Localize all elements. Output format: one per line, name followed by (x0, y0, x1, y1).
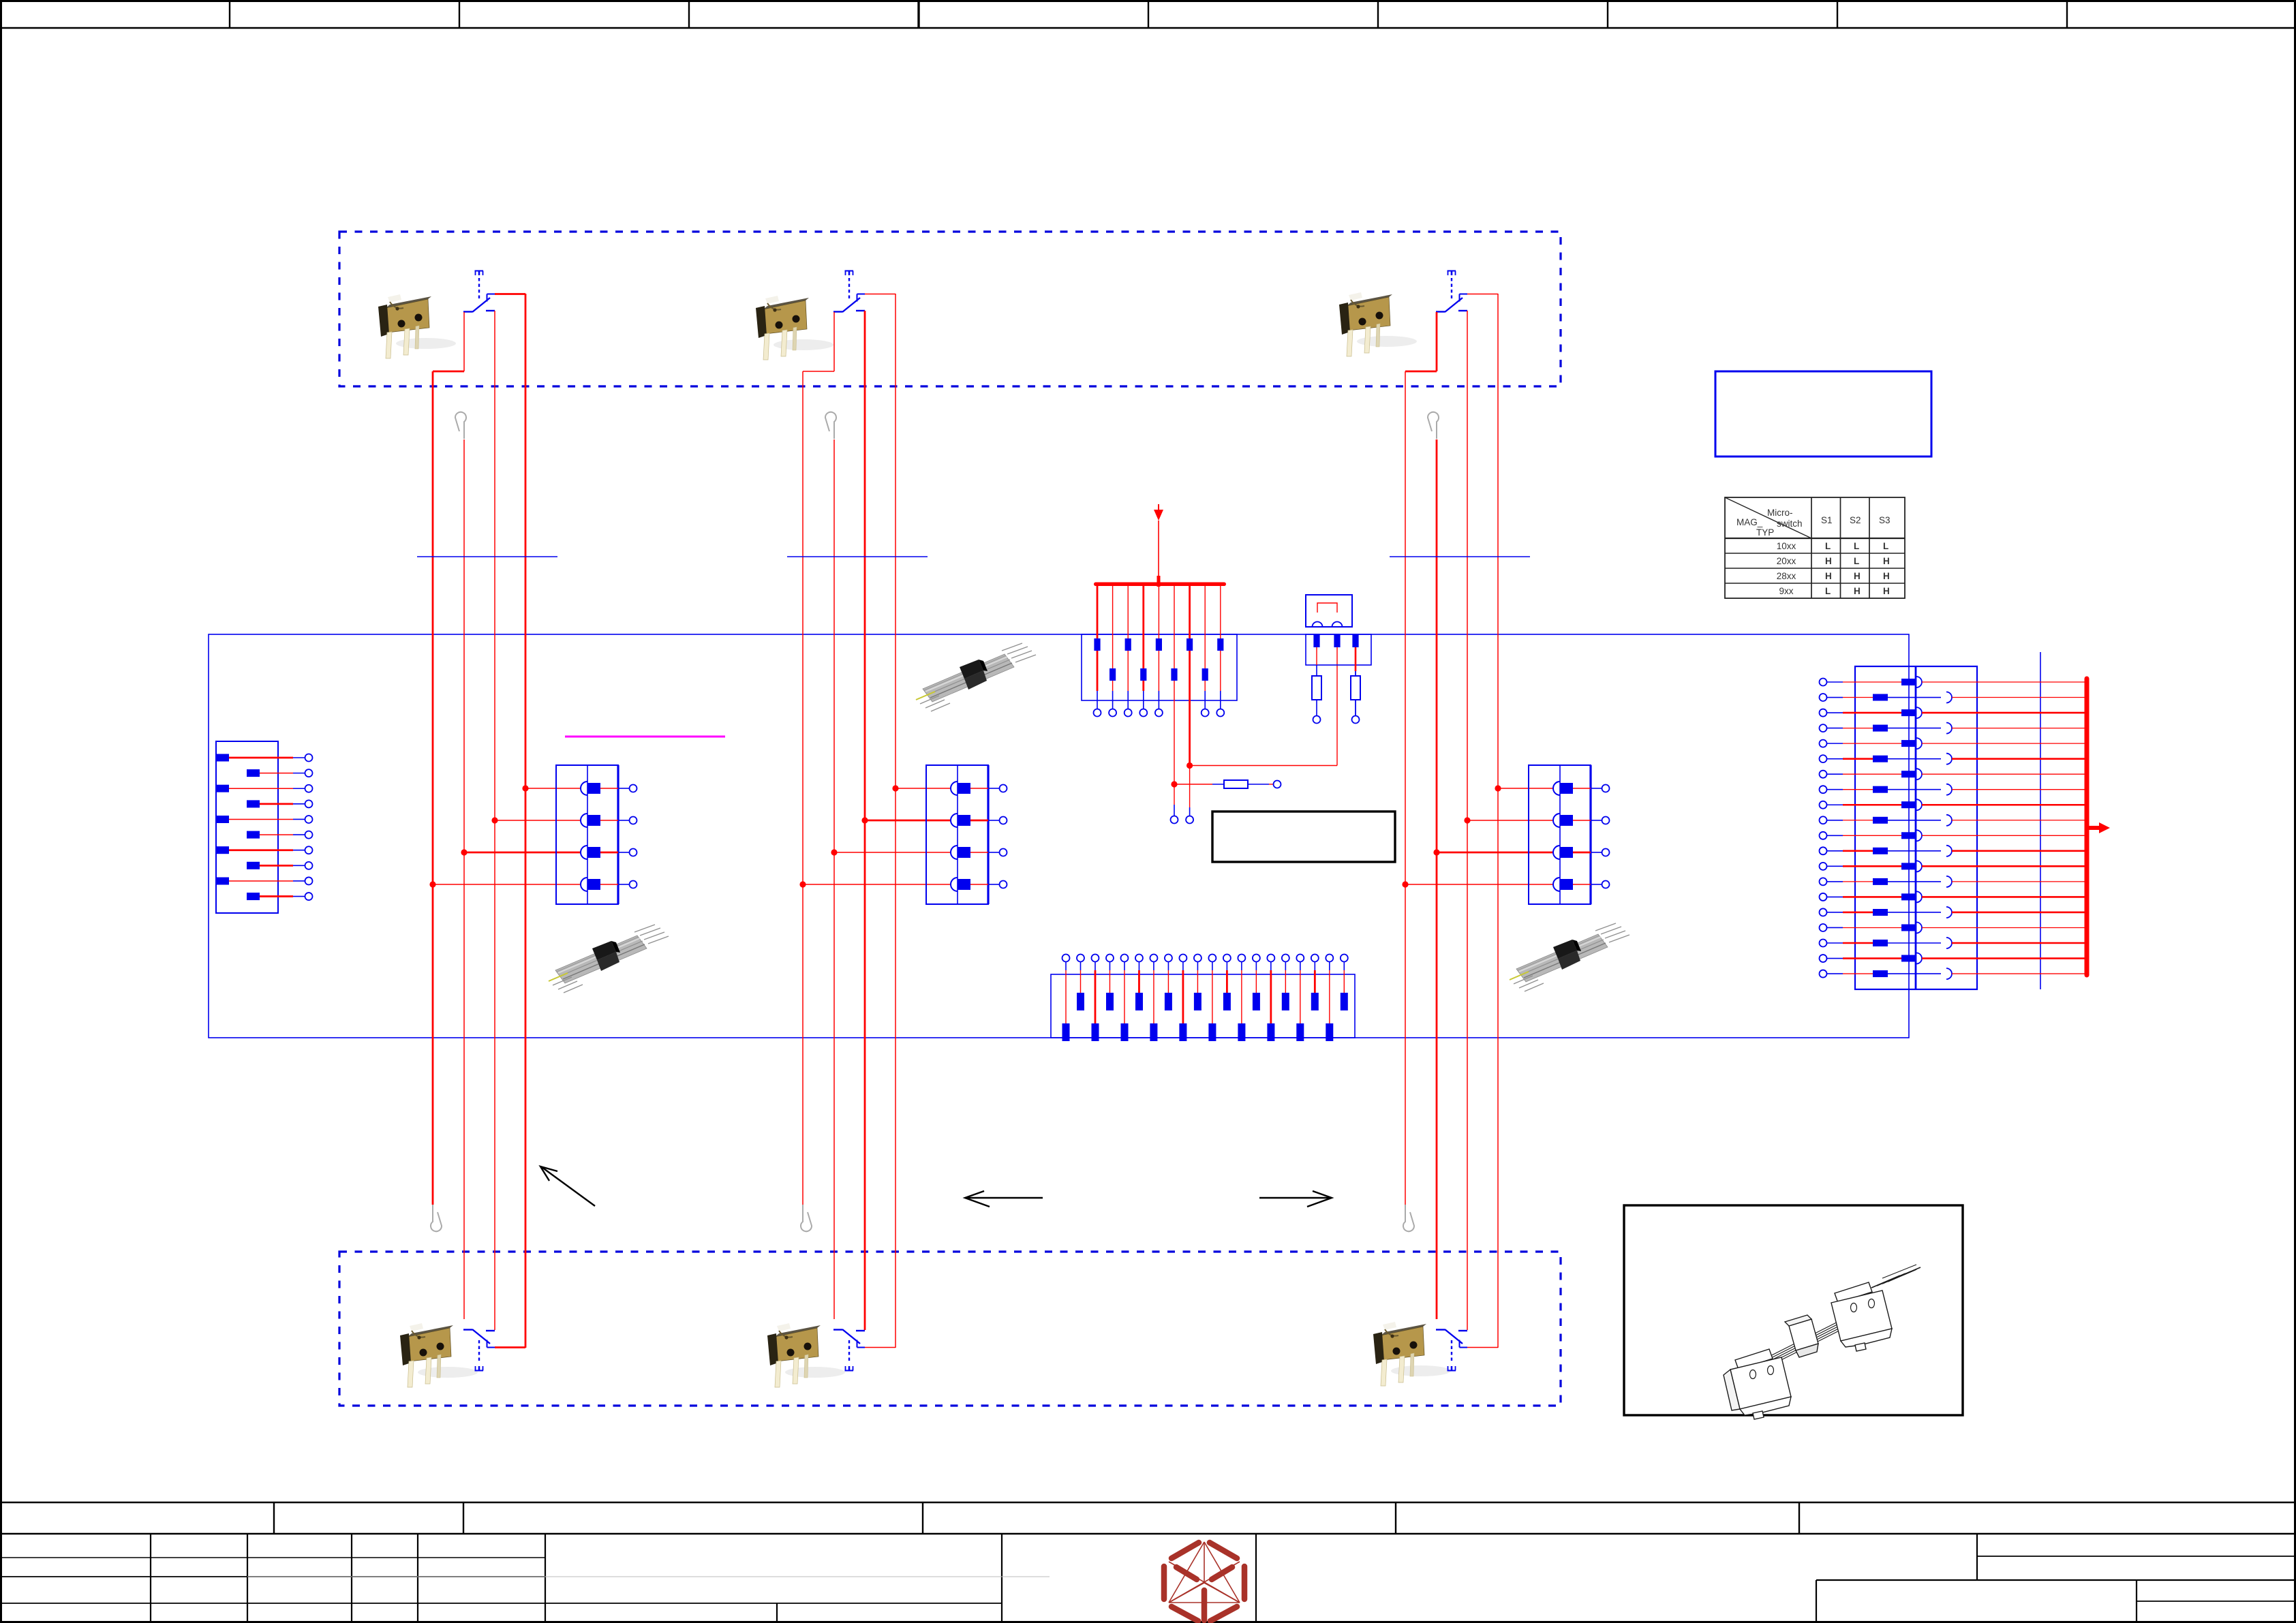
svg-text:Micro-: Micro- (1767, 508, 1793, 518)
connector X1 pin 7 (216, 846, 229, 854)
microswitch S1 photo (bottom) (400, 1323, 478, 1387)
title block vertical 3 (351, 1534, 352, 1622)
title block vertical 8 (776, 1603, 778, 1622)
connector X6 terminal 18 (1311, 955, 1319, 962)
splice pin on wire A (S3) (1403, 1205, 1414, 1231)
svg-text:20xx: 20xx (1777, 556, 1796, 566)
comb wire 5 upper (1158, 585, 1159, 638)
junction node S1 row1 (522, 785, 528, 791)
junction node S3 row1 (1495, 785, 1501, 791)
microswitch S2 photo (bottom) (767, 1323, 845, 1387)
lamp circuit row 7 (1820, 771, 1827, 778)
wire S1 vertical A (432, 371, 434, 1205)
fuse F1.6 (1171, 668, 1177, 681)
wire S3 row4 feeder (1405, 884, 1553, 885)
title block vertical 10 (1976, 1534, 1978, 1580)
comb wire 5 lower (1158, 651, 1159, 691)
wire S3 bottom blade-common to D (1467, 1347, 1498, 1348)
title block vertical 9 (1816, 1580, 1817, 1622)
comb wire 1 lower (1097, 651, 1099, 691)
note box (blue) (1715, 371, 1931, 457)
connector X3 pin 2 (951, 814, 958, 827)
title block hline b (0, 1576, 545, 1577)
title block hline e (1816, 1579, 2296, 1581)
connector X3 pin 1 (951, 782, 958, 795)
frame top tick 7 (1607, 0, 1608, 28)
microswitch S3 photo (top) (1339, 292, 1417, 356)
connector X6 terminal 14 (1253, 955, 1260, 962)
connector X6 pin 4 (1106, 993, 1114, 1010)
wire S1 top contact drop (463, 312, 465, 371)
svg-text:H: H (1883, 571, 1890, 581)
reed contact K1 body (1306, 595, 1352, 627)
lamp circuit row 16 (1820, 908, 1827, 916)
connector X3 body (926, 765, 988, 904)
connector X1 pin 2 (247, 769, 260, 777)
connector X2 pin 2 (581, 814, 587, 827)
junction node S2 row3 (831, 849, 837, 855)
fuse F1.8 (1202, 668, 1208, 681)
lamp circuit row 14 (1820, 878, 1827, 885)
connector X6 pin 11 (1208, 1023, 1216, 1041)
comb wire 1 upper (1097, 585, 1099, 638)
splice pin on wire B (S2) (825, 412, 836, 439)
connector X7 divider (1915, 666, 1917, 989)
svg-text:TYP: TYP (1756, 527, 1774, 538)
connector X6 terminal 9 (1179, 955, 1187, 962)
svg-text:S3: S3 (1879, 515, 1891, 525)
wire S2 bottom blade-common to D (865, 1347, 896, 1348)
connector X6 pin 12 (1223, 993, 1231, 1010)
fuse F1.4 (1140, 668, 1146, 681)
wire X1 row1 stub (293, 757, 305, 758)
ribbon cable photo 2 (549, 925, 669, 993)
wire S2 top blade-common to D (865, 294, 896, 295)
comb wire 8 upper (1204, 585, 1206, 668)
svg-text:S1: S1 (1821, 515, 1833, 525)
connector X6 terminal 4 (1106, 955, 1114, 962)
connector X1 pin 6 (247, 831, 260, 839)
junction node S2 row4 (799, 881, 806, 887)
connector X1 pin 8 (247, 862, 260, 869)
svg-text:H: H (1854, 586, 1861, 596)
wire X1 row5 stub (293, 818, 305, 820)
wire comb7 to relay K1 (1190, 765, 1337, 767)
wire S3 top blade-common to D (1467, 294, 1498, 295)
connector X4 pin 2 (1553, 814, 1560, 827)
splice pin on wire B (S1) (455, 412, 466, 439)
wire S3 top jog (1405, 371, 1437, 373)
connector X6 pin 3 (1092, 1023, 1099, 1041)
title block vertical 2 (247, 1534, 248, 1622)
wire S2 row3 feeder (834, 852, 951, 853)
connector X4 pin 1 (1553, 782, 1560, 795)
wire S3 vertical A (1405, 371, 1406, 1205)
frame top tick 5 (1148, 0, 1149, 28)
connector X7 body (1855, 666, 1977, 989)
connector X6 pin 15 (1267, 1023, 1274, 1041)
fuse block F1 body (1082, 634, 1237, 700)
comb wire 6 tail (1174, 784, 1175, 805)
resistor R2 (1351, 676, 1360, 700)
connector X4 pin 3 (1553, 846, 1560, 859)
reed contact K1 pad 2 (1332, 622, 1343, 627)
frame top tick 9 (2066, 0, 2068, 28)
comb wire 9 upper (1220, 585, 1221, 638)
title block top line (0, 1533, 2296, 1535)
connector X6 terminal 10 (1194, 955, 1201, 962)
micro-switch S1 symbol (top) (463, 271, 495, 313)
comb wire 7 tail (1189, 766, 1191, 808)
lamp circuit row 18 (1820, 940, 1827, 947)
wire S2 row4 feeder (803, 884, 951, 885)
bottom magazine dashed box (339, 1252, 1561, 1406)
title strip divider 2 (463, 1502, 464, 1534)
frame top tick 3 (688, 0, 690, 28)
connector X6 terminal 12 (1223, 955, 1231, 962)
connector X6 terminal 7 (1150, 955, 1157, 962)
wire X1 row3 stub (293, 788, 305, 789)
connector X6 terminal 17 (1296, 955, 1304, 962)
wire S3 row3 feeder (1437, 852, 1553, 854)
connector X2 pin 3 (581, 846, 587, 859)
connector X1 pin 5 (216, 816, 229, 823)
connector X3 pin 3 (951, 846, 958, 859)
lamp circuit row 4 (1820, 724, 1827, 732)
option box (black) (1212, 811, 1395, 862)
wire S2 vertical C (864, 311, 866, 1330)
supply bus arrow (2087, 826, 2099, 830)
comb wire 3 lower (1127, 651, 1129, 691)
connector X6 terminal 13 (1238, 955, 1245, 962)
svg-text:10xx: 10xx (1777, 541, 1796, 551)
svg-text:L: L (1854, 541, 1859, 551)
junction node S1 row4 (429, 881, 435, 887)
connector X6 terminal 2 (1077, 955, 1084, 962)
marker line (magenta) (565, 736, 725, 738)
connector X6 terminal 5 (1120, 955, 1128, 962)
lamp circuit row 12 (1820, 847, 1827, 854)
wire S1 row3 feeder (464, 852, 581, 854)
connector X6 terminal 1 (1062, 955, 1070, 962)
connector X2 pin 4 (581, 878, 587, 891)
wire R2 to terminal (1355, 700, 1356, 715)
lamp circuit row 8 (1820, 786, 1827, 793)
frame top tick 8 (1837, 0, 1838, 28)
wire S1 top jog (433, 371, 464, 373)
lamp circuit row 5 (1820, 740, 1827, 747)
connector X6 pin 20 (1341, 993, 1348, 1010)
feed arrow (down) (1158, 504, 1159, 510)
microswitch S2 photo (top) (756, 296, 833, 360)
top magazine dashed box (339, 232, 1561, 386)
svg-text:H: H (1825, 571, 1832, 581)
junction node S2 row1 (892, 785, 898, 791)
frame top tick 4 (917, 0, 919, 28)
fuse F1.2 (1109, 668, 1116, 681)
connector X6 terminal 20 (1341, 955, 1348, 962)
comb wire 7 lower (1189, 651, 1191, 766)
connector X6 terminal 3 (1091, 955, 1099, 962)
lamp circuit row 19 (1820, 955, 1827, 962)
supply bus B1 (2085, 679, 2090, 975)
comb wire 4 lower (1142, 681, 1144, 691)
wire R3 to terminal (1248, 784, 1269, 785)
connector X2 body (556, 765, 618, 904)
wire X1 row10 stub (293, 896, 305, 897)
lamp circuit row 20 (1820, 970, 1827, 978)
fuse F1.9 (1217, 638, 1223, 651)
wire X1 row9 stub (293, 880, 305, 882)
wire S2 vertical D (895, 294, 896, 1348)
comb wire 2 lower (1112, 681, 1114, 691)
connector X6 terminal 16 (1282, 955, 1289, 962)
wire S3 vertical D (1497, 294, 1499, 1348)
wire X1 row4 stub (293, 803, 305, 805)
frame top tick 1 (229, 0, 230, 28)
connector X6 terminal 19 (1326, 955, 1333, 962)
wire S1 vertical D (525, 294, 527, 1348)
connector X6 pin 2 (1077, 993, 1084, 1010)
fuse F1.1 (1094, 638, 1100, 651)
connector X1 pin 9 (216, 878, 229, 885)
connector X2 pin 1 (581, 782, 587, 795)
connector X6 pin 19 (1326, 1023, 1333, 1041)
junction node S3 row2 (1464, 817, 1470, 823)
svg-text:H: H (1854, 571, 1861, 581)
junction node S1 row2 (491, 817, 498, 823)
connector X6 terminal 11 (1208, 955, 1216, 962)
title block vertical 4 (417, 1534, 418, 1622)
connector X1 pin 4 (247, 800, 260, 807)
connector X5 body (1306, 634, 1371, 665)
micro-switch S2 symbol (bottom) (833, 1329, 865, 1371)
net tag line S2 (787, 556, 928, 557)
wire S2 vertical B (833, 439, 835, 1319)
comb wire 7 upper (1189, 585, 1191, 638)
ribbon cable photo 3 (1510, 923, 1629, 991)
fuse F1.7 (1187, 638, 1193, 651)
wire X5.3 to R2 (1355, 647, 1357, 671)
connector X1 pin 10 (247, 893, 260, 900)
connector X6 pin 13 (1238, 1023, 1245, 1041)
lamp circuit row 10 (1820, 816, 1827, 824)
ribbon cable photo 1 (916, 643, 1036, 711)
wire relay K1 pin2 drop (1336, 647, 1338, 766)
lamp circuit row 13 (1820, 863, 1827, 870)
wire X1 row8 stub (293, 865, 305, 866)
wire S1 top blade-common to D (495, 293, 525, 295)
wire S1 bottom blade-common to D (495, 1346, 525, 1348)
lamp circuit row 17 (1820, 924, 1827, 931)
wire X5.1 to R1 (1316, 647, 1317, 665)
title block hline d (1977, 1556, 2296, 1557)
svg-text:H: H (1883, 556, 1890, 566)
connector X6 terminal 8 (1165, 955, 1172, 962)
svg-text:L: L (1883, 541, 1888, 551)
arrow left (965, 1191, 1043, 1207)
junction node comb7 (1187, 762, 1193, 769)
lamp circuit row 11 (1820, 832, 1827, 839)
net tag line S1 (417, 556, 557, 557)
connector X5 pin 3 (1352, 634, 1358, 647)
svg-text:H: H (1825, 556, 1832, 566)
wire X1 row6 stub (293, 834, 305, 835)
connector X6 pin 18 (1311, 993, 1319, 1010)
splice pin on wire A (S1) (431, 1205, 442, 1231)
arrow up-left (540, 1166, 595, 1206)
title block hline a (0, 1557, 545, 1558)
feed bus bar (1094, 583, 1226, 587)
wire S2 row1 feeder (896, 788, 951, 789)
lamp circuit row 2 (1820, 694, 1827, 701)
junction node S1 row3 (461, 849, 467, 855)
wire S1 row4 feeder (433, 884, 581, 885)
wire X1 row2 stub (293, 773, 305, 774)
title strip divider 3 (922, 1502, 923, 1534)
wire S3 vertical B (1436, 439, 1438, 1319)
microswitch S3 photo (bottom) (1373, 1322, 1451, 1386)
connector X6 pin 14 (1253, 993, 1260, 1010)
micro-switch S2 symbol (top) (833, 271, 865, 313)
svg-text:28xx: 28xx (1777, 571, 1796, 581)
connector X1 pin 1 (216, 754, 229, 762)
lamp circuit row 15 (1820, 893, 1827, 901)
coding table text (1736, 508, 1891, 596)
title block vertical 6 (1001, 1534, 1002, 1622)
connector X5 pin 1 (1313, 634, 1319, 647)
fuse F1.3 (1125, 638, 1131, 651)
title strip divider 4 (1395, 1502, 1396, 1534)
title block vertical 7 (1255, 1534, 1257, 1622)
wire X1 row7 stub (293, 850, 305, 851)
connector X6 terminal 15 (1267, 955, 1274, 962)
title block hline b2 (247, 1576, 1050, 1577)
frame top tick 6 (1377, 0, 1379, 28)
micro-switch S3 symbol (top) (1436, 271, 1467, 313)
wire S2 top contact drop (833, 312, 835, 371)
svg-text:S2: S2 (1850, 515, 1861, 525)
wire R1 to terminal (1316, 700, 1317, 715)
title block vertical 11 (2136, 1580, 2137, 1622)
splice pin on wire B (S3) (1428, 412, 1439, 439)
connector X3 pin 4 (951, 878, 958, 891)
connector X5 pin 2 (1334, 634, 1340, 647)
title strip divider 5 (1798, 1502, 1800, 1534)
lamp circuit row 1 (1820, 679, 1827, 686)
coding table (1725, 497, 1905, 598)
junction node S3 row4 (1402, 881, 1408, 887)
connector X6 pin 9 (1179, 1023, 1187, 1041)
comb wire 6 upper (1174, 585, 1175, 668)
title strip divider 1 (273, 1502, 275, 1534)
comb wire 2 upper (1112, 585, 1114, 668)
title block vertical 1 (150, 1534, 151, 1622)
company logo (hex wireframe) (1164, 1542, 1244, 1621)
title block hline f (2137, 1601, 2296, 1602)
connector X6 terminal 6 (1135, 955, 1143, 962)
arrow right (1259, 1191, 1332, 1207)
connector X6 pin 1 (1062, 1023, 1070, 1041)
junction node S3 row3 (1433, 849, 1439, 855)
title block hline c (0, 1603, 1002, 1604)
frame top tick 2 (459, 0, 460, 28)
resistor R1 (1312, 676, 1321, 700)
wire S2 row2 feeder (865, 820, 951, 822)
svg-text:L: L (1825, 541, 1831, 551)
junction node comb6 (1171, 781, 1177, 787)
wire S1 row2 feeder (495, 820, 581, 821)
connector X6 pin 16 (1282, 993, 1289, 1010)
wire S3 row1 feeder (1498, 788, 1553, 789)
reed contact K1 internal wire (1317, 603, 1337, 613)
wire S2 top jog (803, 371, 834, 372)
svg-text:H: H (1883, 586, 1890, 596)
connector X6 pin 6 (1135, 993, 1143, 1010)
svg-text:switch: switch (1777, 519, 1803, 529)
connector X6 pin 17 (1296, 1023, 1304, 1041)
lamp circuit row 9 (1820, 801, 1827, 809)
connector X1 body (216, 741, 278, 913)
connector X6 pin 7 (1150, 1023, 1157, 1041)
comb wire 6 lower (1174, 681, 1175, 784)
svg-text:MAG_: MAG_ (1736, 517, 1763, 527)
microswitch S1 photo (top) (378, 294, 456, 358)
main board box (209, 634, 1909, 1038)
wire S1 vertical B (463, 439, 465, 1319)
comb wire 8 lower (1204, 681, 1206, 691)
connector X6 pin 8 (1165, 993, 1172, 1010)
title block vertical 5 (545, 1534, 546, 1622)
wire S3 top contact drop (1436, 312, 1438, 371)
wire S3 vertical C (1467, 311, 1468, 1330)
svg-text:L: L (1825, 586, 1831, 596)
connector X6 pin 10 (1194, 993, 1201, 1010)
connector X4 pin 4 (1553, 878, 1560, 891)
frame bottom ruler line (0, 1502, 2296, 1504)
connector X6 body (1051, 974, 1355, 1038)
comb wire 9 lower (1220, 651, 1221, 691)
wire S1 vertical C (494, 311, 495, 1330)
assembly view box (1624, 1205, 1963, 1415)
wire S1 row1 feeder (525, 788, 581, 789)
junction node S2 row2 (861, 817, 868, 823)
micro-switch S1 symbol (bottom) (463, 1329, 495, 1371)
net line N1 (2040, 652, 2041, 989)
svg-text:9xx: 9xx (1779, 586, 1793, 596)
comb wire 3 upper (1127, 585, 1129, 638)
lamp circuit row 6 (1820, 755, 1827, 762)
wire comb6 to R3 (1174, 784, 1212, 785)
connector X4 body (1529, 765, 1591, 904)
connector X6 pin 5 (1121, 1023, 1129, 1041)
wire S3 row2 feeder (1467, 820, 1553, 821)
micro-switch S3 symbol (bottom) (1436, 1329, 1467, 1371)
connector X1 pin 3 (216, 785, 229, 792)
wire S2 vertical A (802, 371, 803, 1205)
splice pin on wire A (S2) (801, 1205, 812, 1231)
lamp circuit row 3 (1820, 709, 1827, 717)
resistor R3 (1224, 780, 1248, 788)
reed contact K1 pad 1 (1313, 622, 1323, 627)
svg-text:L: L (1854, 556, 1859, 566)
switch rail assembly drawing (1724, 1265, 1920, 1419)
comb wire 4 upper (1142, 585, 1144, 668)
net tag line S3 (1390, 556, 1530, 557)
fuse F1.5 (1156, 638, 1162, 651)
frame top ruler line (0, 27, 2296, 29)
